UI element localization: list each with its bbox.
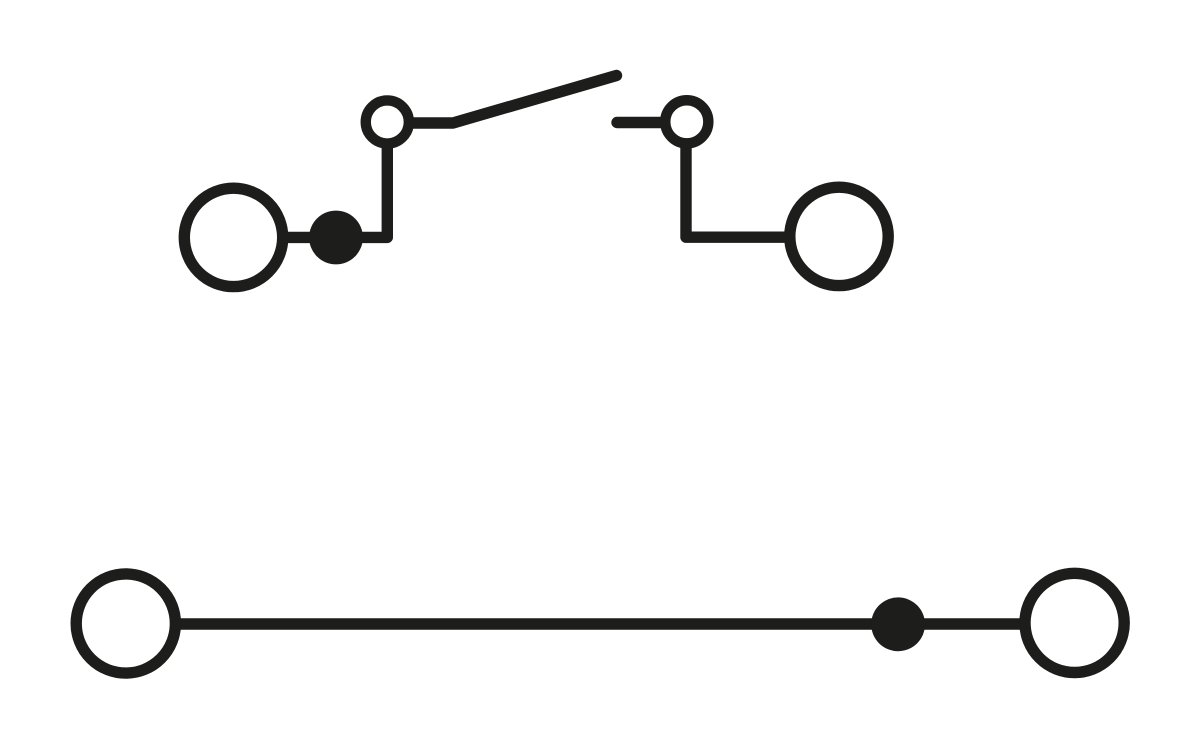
wire switch drop to terminal X1.2 (with corner right) <box>686 145 791 237</box>
switch contact (right, open circle) <box>665 100 708 143</box>
wire X1.1 to switch riser (with corner up) <box>284 144 387 237</box>
junction test-point dot (bottom) <box>871 597 925 651</box>
wire X2.1 to X2.2 (feed-through) <box>176 618 1024 629</box>
junction test-point dot (top) <box>309 211 363 265</box>
terminal X1.1 (top-left screw terminal) <box>184 188 282 286</box>
terminal X2.2 (bottom-right screw terminal) <box>1025 573 1124 672</box>
switch fixed contact stub (right) <box>617 117 664 128</box>
terminal X1.2 (top-right screw terminal) <box>790 187 888 285</box>
switch blade (open knife disconnect) <box>410 76 617 124</box>
terminal X2.1 (bottom-left screw terminal) <box>76 574 175 673</box>
switch pivot contact (left, open circle) <box>366 100 409 143</box>
